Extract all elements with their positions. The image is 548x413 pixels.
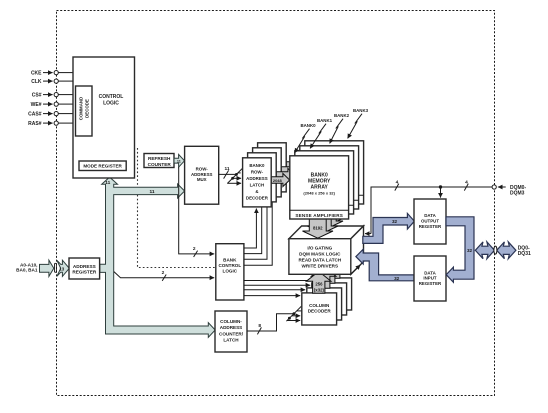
wire: dotted mode-register opcode path to bank control logic — [138, 148, 216, 268]
pin CS# — [32, 93, 73, 99]
bus: teal input arrow from pad into address register, 13 wide — [57, 260, 69, 276]
svg-text:CAS#: CAS# — [28, 112, 42, 118]
svg-text:11: 11 — [224, 166, 229, 172]
wire: bank control to column decoder select line 1 — [244, 280, 313, 282]
svg-text:ADDRESS: ADDRESS — [191, 172, 213, 177]
svg-text:MODE REGISTER: MODE REGISTER — [83, 163, 122, 168]
block: mode register — [79, 161, 126, 171]
wire: bank control to row-address latch select line 4 — [244, 202, 272, 265]
block: data input register — [414, 256, 446, 301]
svg-text:WE#: WE# — [31, 102, 42, 108]
svg-text:32: 32 — [467, 248, 473, 253]
label: BANK0 with lightning pointer — [295, 123, 317, 153]
svg-text:(x32): (x32) — [314, 287, 325, 292]
bus: blue 32-wide write data bus from data input register to I/O gating — [356, 249, 414, 281]
bus: gray 8192 sense-amp arrows into I/O gating (banks 3..0) — [318, 204, 349, 223]
svg-text:DATA: DATA — [424, 213, 436, 218]
svg-text:11: 11 — [149, 189, 154, 195]
pin CKE — [31, 71, 73, 77]
svg-text:ADDRESS: ADDRESS — [220, 325, 242, 330]
chip boundary dashed border — [57, 11, 495, 396]
svg-text:COUNTER: COUNTER — [148, 162, 172, 167]
svg-text:BANK2: BANK2 — [334, 113, 350, 118]
svg-text:BANK1: BANK1 — [317, 118, 333, 123]
svg-text:DQM3: DQM3 — [510, 191, 525, 197]
svg-text:8: 8 — [258, 323, 261, 329]
pad: DQM0-DQM3 pin circle and label — [492, 185, 526, 197]
block: column decoder bank1 — [307, 288, 342, 320]
bus: teal address bus trunk with up-arrow into control logic, arrow into row-address mux, stub from address register, bottom run to column-address counter — [100, 177, 215, 337]
svg-text:SENSE AMPLIFIERS: SENSE AMPLIFIERS — [295, 213, 343, 218]
svg-text:ADDRESS: ADDRESS — [246, 176, 268, 181]
block: command decode (rotated label) — [76, 86, 93, 136]
svg-text:REGISTER: REGISTER — [72, 270, 97, 275]
svg-text:MUX: MUX — [197, 177, 207, 182]
svg-text:13: 13 — [59, 266, 64, 271]
svg-text:LATCH: LATCH — [223, 338, 239, 343]
wire: 2-wide branch from address bus to bank control logic (lower) — [114, 270, 214, 281]
block: column-address counter/latch — [215, 311, 247, 352]
svg-text:BA0, BA1: BA0, BA1 — [16, 268, 38, 273]
svg-text:DECODER: DECODER — [246, 196, 269, 201]
wire: bank control to row-address latch select line 2 — [244, 207, 262, 253]
block: refresh counter — [144, 154, 174, 168]
stack layer 1: bank1 row-address latch, 2048 arrow, memory array — [248, 151, 354, 214]
wire: black arrow from I/O gating corner to write bus — [351, 265, 360, 274]
bus: gray 256(x32) column select arrows into I/O gating (banks 3..0) — [321, 259, 346, 278]
stack layer 2: bank2 row-address latch, 2048 arrow, memory array — [253, 146, 359, 209]
block: address register — [69, 258, 100, 279]
svg-text:RAS#: RAS# — [28, 121, 42, 127]
svg-text:ROW-: ROW- — [196, 167, 209, 172]
wire: DQM line from pad to output register and I/O gating — [365, 179, 492, 233]
svg-text:8192: 8192 — [313, 225, 323, 230]
svg-text:REFRESH: REFRESH — [148, 156, 171, 161]
wire: bank control to row-address latch select line 1 — [244, 209, 257, 249]
bus: DQ double arrow inside pad — [475, 242, 494, 259]
svg-text:BANK0: BANK0 — [249, 163, 265, 168]
bus: teal input arrow to chip pad — [40, 260, 54, 276]
wire: bank control to column decoder select line 3 — [244, 289, 305, 291]
svg-text:LOGIC: LOGIC — [103, 100, 119, 106]
bus: blue 32-wide read data bus from I/O gating to data output register — [363, 213, 415, 243]
svg-text:I/O GATING: I/O GATING — [307, 246, 332, 251]
label: BANK1 with lightning pointer — [310, 118, 333, 148]
svg-text:BANK3: BANK3 — [353, 108, 369, 113]
svg-text:CKE: CKE — [31, 71, 42, 77]
block: control logic U1 — [73, 57, 135, 178]
svg-text:BANK0: BANK0 — [311, 173, 328, 179]
stack layer 0 front: 2048 arrow with label — [271, 173, 289, 186]
svg-text:256: 256 — [315, 281, 323, 286]
svg-text:LATCH: LATCH — [250, 183, 265, 188]
bus: teal arrow refresh counter to row-address mux — [174, 154, 185, 167]
svg-text:BANK0: BANK0 — [300, 123, 316, 128]
bus: DQ double arrow outside pad — [497, 242, 516, 259]
wire: 2-wide bank address branch from address bus to bank control logic — [179, 167, 215, 257]
svg-text:COLUMN: COLUMN — [309, 303, 330, 308]
svg-text:2: 2 — [193, 246, 196, 252]
stack layer 3: bank3 row-address latch, 2048 arrow, memory array — [258, 141, 364, 204]
svg-text:DATA: DATA — [424, 270, 436, 275]
label: BANK2 with lightning pointer — [330, 113, 350, 143]
svg-text:CONTROL: CONTROL — [218, 263, 241, 268]
wire: 11-wide row address from mux fanned to bank row-address latches — [219, 166, 244, 183]
svg-text:CS#: CS# — [32, 93, 42, 99]
svg-text:INPUT: INPUT — [423, 276, 436, 281]
svg-text:CLK: CLK — [31, 79, 42, 85]
svg-text:WRITE DRIVERS: WRITE DRIVERS — [302, 263, 339, 268]
block: row-address mux — [185, 146, 219, 204]
wire: bank control to row-address latch select line 3 — [244, 207, 267, 259]
wire: bank control to column decoder select line 4 — [244, 295, 300, 297]
svg-text:4: 4 — [465, 179, 468, 185]
svg-text:DQM MASK LOGIC: DQM MASK LOGIC — [299, 252, 341, 257]
svg-text:CONTROL: CONTROL — [99, 94, 124, 100]
svg-text:DQ31: DQ31 — [518, 251, 531, 257]
block: bank0 memory array with sense amplifiers (front) — [290, 156, 349, 219]
bus: gray 8192 front arrow with label — [303, 219, 334, 238]
svg-text:4: 4 — [396, 179, 399, 185]
svg-text:LOGIC: LOGIC — [223, 268, 238, 273]
pin CLK — [31, 79, 73, 85]
svg-text:COLUMN-: COLUMN- — [220, 319, 242, 324]
wire: bank control to column decoder select line 2 — [244, 284, 310, 286]
svg-text:REGISTER: REGISTER — [419, 224, 442, 229]
block: I/O gating / DQM mask logic / read data latch / write drivers (3D) — [289, 226, 364, 274]
svg-text:ROW-: ROW- — [251, 170, 264, 175]
svg-text:(2048 x 256 x 32): (2048 x 256 x 32) — [303, 190, 335, 195]
svg-text:REGISTER: REGISTER — [419, 281, 442, 286]
block: bank0 row-address latch &amp; decoder (front) — [243, 158, 272, 207]
block: bank control logic — [216, 244, 244, 300]
svg-text:32: 32 — [394, 276, 400, 281]
svg-text:COUNTER/: COUNTER/ — [219, 331, 244, 336]
svg-text:32: 32 — [392, 219, 398, 224]
bus: blue trunk joining output register, input register and DQ pads — [446, 217, 474, 282]
block: data output register — [414, 199, 446, 244]
svg-text:COMMAND: COMMAND — [79, 97, 84, 120]
pad: address input pad bar on chip boundary — [55, 263, 57, 272]
pin CAS# — [28, 112, 73, 118]
bus: gray 256(x32) front arrow into I/O gating — [306, 274, 331, 293]
svg-text:11: 11 — [105, 180, 110, 186]
pad: DQ0-DQ31 pad oval and label — [494, 245, 531, 257]
svg-text:BANK: BANK — [223, 257, 237, 262]
svg-text:READ DATA LATCH: READ DATA LATCH — [298, 258, 341, 263]
svg-text:DECODE: DECODE — [85, 99, 90, 118]
pin WE# — [31, 102, 73, 108]
svg-text:OUTPUT: OUTPUT — [421, 219, 439, 224]
svg-text:2: 2 — [162, 270, 165, 276]
svg-text:11: 11 — [177, 160, 181, 164]
block: column decoder bank3 (back of stack) — [317, 278, 352, 310]
wire: 8-wide column address from counter fanned to column decoders — [247, 306, 302, 334]
svg-text:DECODER: DECODER — [308, 309, 332, 314]
svg-text:2048: 2048 — [273, 178, 283, 183]
label: BANK3 with lightning pointer — [348, 108, 369, 138]
pin RAS# — [28, 121, 73, 127]
block: column decoder bank2 — [312, 283, 347, 315]
block: column decoder bank0 (front) — [302, 293, 337, 325]
svg-text:ADDRESS: ADDRESS — [73, 264, 96, 269]
